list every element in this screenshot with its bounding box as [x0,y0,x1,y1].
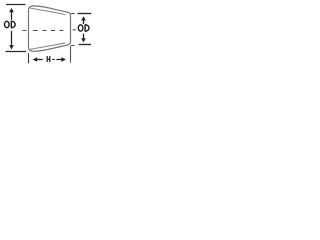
H label [47,56,50,62]
left OD dimension: down arrow [9,31,14,50]
extension line top-left [6,4,26,6]
H dimension: right arrow [56,57,66,62]
part outline (tapered reducer body) [29,6,71,51]
right OD label: letter O [78,25,83,31]
background [0,0,94,78]
inner bottom contour line [30,43,65,50]
left OD dimension: up arrow [9,8,14,20]
H dimension: left arrow [33,57,43,62]
H dimension: right extension line (vertical, continues from part face) [70,46,72,63]
inner top contour line [30,8,65,15]
extension line top-right (short dash + line) [71,13,75,15]
left OD label: letter O [5,21,10,27]
right OD dimension: down arrow [81,34,86,43]
H dimension: left extension line (vertical) [28,53,30,63]
left OD label: letter D [11,21,15,28]
extension line bottom-right (short dash + line) [71,45,75,47]
right OD label: letter D [85,25,89,32]
right OD dimension: up arrow [81,16,86,24]
H dimension line dash (right of label) [52,59,55,61]
extension line bottom-left [6,51,27,53]
centerline (dashed) [23,29,76,32]
